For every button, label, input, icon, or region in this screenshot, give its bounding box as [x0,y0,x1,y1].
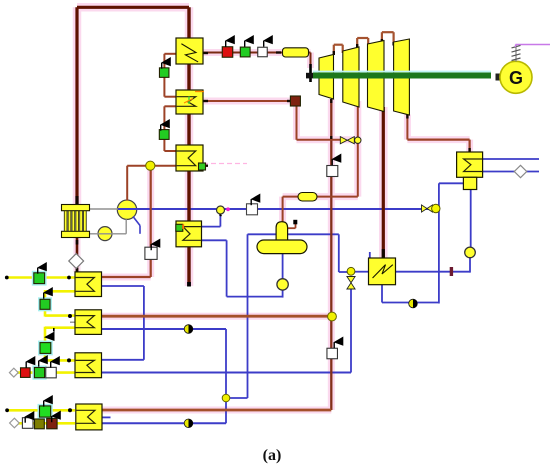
svg-text:(a): (a) [263,447,282,464]
svg-text:G: G [509,68,523,88]
